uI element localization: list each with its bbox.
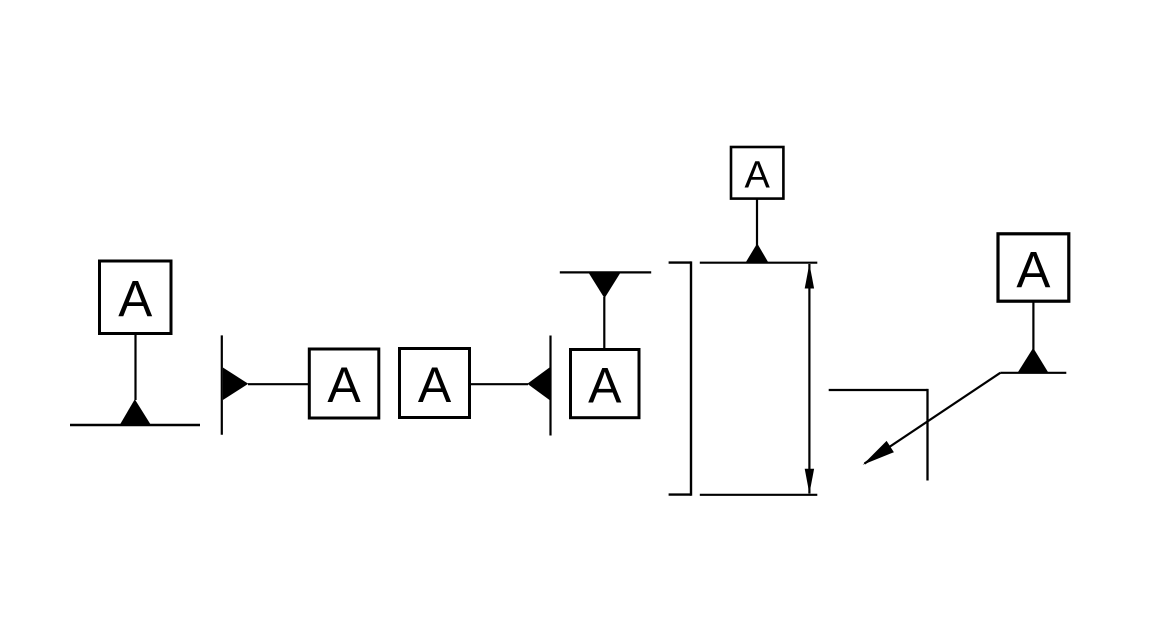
datum 2 filled triangle pointing right <box>223 368 248 401</box>
dimension line with double arrows <box>808 264 810 494</box>
datum feature symbol 4 : frame box A <box>571 350 640 418</box>
square bracket top cap <box>669 261 691 263</box>
square bracket bottom cap <box>669 493 691 495</box>
svg-text:A: A <box>418 357 452 413</box>
surface line under datum 1 <box>70 424 200 426</box>
datum feature symbol 6 : frame box A <box>998 234 1069 301</box>
datum 5 filled triangle on dimension line <box>746 243 768 262</box>
target feature corner horizontal edge <box>829 389 928 391</box>
extension line (left) of datum 2 <box>221 335 223 434</box>
svg-text:A: A <box>1016 241 1050 298</box>
datum 6 short surface line <box>1000 372 1066 374</box>
square bracket vertical <box>690 261 692 495</box>
feature top edge line <box>700 262 818 264</box>
dimension arrowhead top <box>805 264 814 289</box>
datum 2 leader line <box>248 383 308 385</box>
surface line above datum 4 <box>560 271 651 273</box>
svg-text:A: A <box>118 271 152 328</box>
datum 6 leader stem <box>1032 302 1034 350</box>
datum 5 leader stem <box>756 199 758 246</box>
datum 4 filled triangle pointing down <box>589 273 620 298</box>
datum feature symbol 5 : small frame box A <box>731 147 783 199</box>
datum 3 filled triangle pointing left <box>527 368 549 401</box>
extension line (right) of datum 3 <box>549 336 551 436</box>
datum feature symbol 3 : frame box A <box>400 349 470 418</box>
svg-text:A: A <box>327 357 361 413</box>
datum 4 leader stem <box>603 297 605 349</box>
datum feature symbol 1 : frame box A <box>100 261 172 334</box>
datum 1 filled triangle on surface <box>120 399 151 424</box>
dimension arrowhead bottom <box>805 469 814 494</box>
svg-text:A: A <box>745 154 771 196</box>
svg-text:A: A <box>588 357 622 413</box>
datum 3 leader line <box>471 383 529 385</box>
feature bottom edge line <box>700 494 818 496</box>
datum 1 leader stem <box>134 335 136 400</box>
leader arrowhead <box>863 441 894 465</box>
target feature corner vertical edge <box>926 389 928 481</box>
leader diagonal line <box>865 373 1001 464</box>
datum 6 filled triangle <box>1018 348 1048 373</box>
datum feature symbol 2 : frame box A <box>309 349 379 418</box>
